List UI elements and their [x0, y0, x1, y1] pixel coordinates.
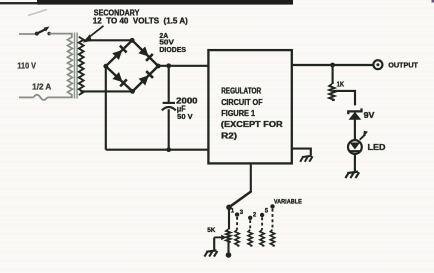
switch S1 throw contact — [47, 32, 51, 36]
junction node (bridge top AC vertex) — [130, 38, 135, 43]
regulator block U1 (box) — [208, 50, 291, 163]
label 9V — [364, 110, 375, 120]
label 1 (switch position) — [231, 209, 235, 215]
resistor R1 1K (vertical zigzag) — [329, 84, 334, 100]
svg-text:2: 2 — [253, 212, 257, 218]
wire (LED to ground) — [354, 154, 356, 171]
svg-text:5: 5 — [265, 208, 269, 214]
wire (capacitor to negative rail) — [168, 109, 170, 150]
ground (5K wiper) — [204, 250, 217, 256]
stray scan mark (top left) — [28, 10, 47, 16]
zener diode D5 cathode bar — [348, 108, 361, 114]
output terminal J1 — [373, 60, 382, 69]
wire (secondary bottom lead to bridge AC node) — [80, 90, 132, 92]
wire (R1 to zener branch) — [333, 91, 355, 106]
wire (regulator output to terminal) — [292, 64, 373, 66]
wire (AC neutral, left segment to fuse) — [19, 96, 34, 98]
svg-text:12 TO 40 VOLTS (1.5 A): 12 TO 40 VOLTS (1.5 A) — [93, 17, 188, 26]
junction node (1K tap on output wire) — [330, 63, 335, 68]
svg-text:1/2 A: 1/2 A — [32, 83, 51, 92]
switch contact 2 — [248, 216, 252, 220]
label 2A 50V DIODES — [159, 31, 186, 54]
leader arrow to secondary winding — [83, 26, 104, 43]
wire (negative rail to regulator box) — [106, 149, 209, 151]
junction node (capacitor on negative rail) — [166, 147, 171, 152]
potentiometer R3 5K body (zigzag) — [226, 229, 231, 242]
label 5 (switch position) — [265, 208, 269, 214]
LED triangle and cathode bar — [350, 143, 361, 152]
wire (regulator R2 terminal down) — [250, 163, 252, 192]
wire (zener to LED) — [354, 119, 356, 140]
label 12 TO 40 VOLTS (1.5 A) — [93, 17, 188, 26]
transformer T1 core — [75, 33, 78, 99]
svg-text:3: 3 — [240, 210, 244, 216]
svg-text:(EXCEPT FOR: (EXCEPT FOR — [221, 120, 283, 129]
wire (AC hot, left segment to switch) — [19, 33, 36, 35]
wire (output node down to R1) — [332, 65, 334, 84]
svg-text:1: 1 — [231, 209, 235, 215]
capacitor C1 bottom plate (curved) — [162, 107, 176, 110]
label 3 (switch position) — [240, 210, 244, 216]
label 2000 uF 50 V — [176, 96, 198, 121]
diode D2 (bridge upper-left arm) — [112, 46, 126, 60]
LED indicator body (circle) — [348, 140, 362, 154]
label REGULATOR CIRCUIT OF FIGURE 1 (EXCEPT FOR R2) — [221, 87, 283, 141]
dashed link (contact VARIABLE to R2d) — [272, 209, 274, 230]
svg-text:9V: 9V — [364, 110, 375, 120]
zener diode D5 (9V) body — [349, 112, 362, 120]
ground (below LED) — [345, 172, 359, 178]
border bar (scan artifact, top edge) — [0, 0, 293, 5]
fuse F1 (1/2 A) — [34, 95, 48, 100]
svg-text:50 V: 50 V — [177, 112, 192, 121]
switch contact 3 — [235, 212, 239, 216]
dashed link (contact 5 to R2c) — [261, 217, 263, 229]
resistor R2c (zigzag) — [260, 230, 264, 246]
svg-text:LED: LED — [368, 143, 386, 152]
junction node (bridge right DC+ vertex) — [156, 64, 161, 69]
dashed link (contact 2 to R2b) — [249, 220, 251, 229]
switch contact 5 — [260, 213, 264, 217]
resistor R2d (zigzag) — [270, 230, 274, 246]
svg-text:VARIABLE: VARIABLE — [274, 199, 302, 205]
LED emission arrow — [360, 131, 368, 140]
label 1K — [337, 80, 345, 89]
wire (switch to transformer primary top) — [49, 34, 72, 38]
svg-text:110 V: 110 V — [17, 61, 36, 71]
switch S1 arm — [37, 26, 50, 33]
junction node (filter cap tap on DC+ wire) — [166, 63, 171, 68]
resistor R2b (zigzag) — [248, 230, 252, 246]
svg-text:OUTPUT: OUTPUT — [388, 60, 418, 69]
svg-text:REGULATOR: REGULATOR — [221, 87, 261, 96]
resistor R2a (zigzag) — [235, 230, 239, 246]
ground (regulator case) — [300, 156, 312, 162]
junction node (bridge left DC- vertex) — [103, 64, 108, 69]
transformer T1 primary winding — [68, 37, 73, 95]
label SECONDARY — [94, 8, 140, 17]
wire (fuse to transformer primary bottom) — [47, 95, 72, 98]
terminal node (5K pot bottom) — [226, 252, 232, 258]
label 110 V — [17, 61, 36, 71]
svg-text:1K: 1K — [337, 80, 345, 89]
label 2 (switch position) — [253, 212, 257, 218]
label VARIABLE — [274, 199, 302, 205]
dashed link (contact 3 to R2a) — [236, 217, 238, 230]
junction node (bridge bottom AC vertex) — [130, 89, 135, 94]
wire (bridge DC+ vertex to regulator box) — [158, 65, 208, 67]
svg-text:FIGURE 1: FIGURE 1 — [221, 109, 255, 118]
label LED — [368, 143, 386, 152]
wire (wiper to ground) — [213, 237, 215, 249]
switch S2 pole node — [226, 205, 232, 211]
switch S2 selector arm — [229, 192, 251, 208]
transformer T1 secondary winding — [79, 37, 84, 95]
wire (S2 pole down to 5K pot) — [228, 207, 230, 229]
potentiometer R3 wiper arrow — [214, 235, 226, 241]
label 1/2 A — [32, 83, 51, 92]
label 5K — [207, 227, 215, 234]
wire (5K pot lower lead) — [227, 242, 229, 254]
svg-text:CIRCUIT OF: CIRCUIT OF — [221, 98, 262, 107]
diode D4 (bridge lower-right arm) — [139, 71, 153, 85]
wire (bridge DC- vertex down) — [105, 66, 107, 150]
wire (regulator case to ground) — [292, 149, 311, 156]
svg-text:DIODES: DIODES — [159, 45, 186, 54]
svg-text:R2): R2) — [221, 132, 237, 141]
label OUTPUT — [388, 60, 418, 69]
wire (DC+ node down to capacitor) — [168, 66, 170, 103]
diode D3 (bridge upper-right arm) — [138, 46, 152, 60]
capacitor C1 top plate — [163, 102, 175, 104]
stray scan speck (top right corner) — [432, 0, 434, 3]
switch contact VARIABLE — [270, 204, 274, 208]
bridge rectifier outline (diamond) — [106, 40, 158, 91]
switch S1 pole contact — [35, 32, 39, 36]
svg-text:5K: 5K — [207, 227, 215, 234]
wire (secondary top lead to bridge AC node) — [83, 39, 132, 41]
diode D1 (bridge lower-left arm) — [112, 72, 126, 86]
